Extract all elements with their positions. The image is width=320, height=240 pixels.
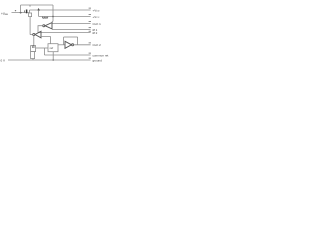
wire node B drop xyxy=(51,5,54,24)
op-amp U1 xyxy=(45,23,52,29)
terminal tick ground xyxy=(89,57,91,59)
capacitor C1 plate short xyxy=(24,10,26,12)
wire riser to top rail xyxy=(20,5,22,13)
wire to U2 output xyxy=(30,34,33,36)
svg-text:ground: ground xyxy=(93,59,103,63)
buffer U4 xyxy=(65,41,72,48)
buffer U4 bubble xyxy=(72,44,74,46)
wire rail B xyxy=(39,16,91,18)
wire ground rail xyxy=(8,59,91,61)
svg-text:+VBB: +VBB xyxy=(1,12,8,16)
terminal tick rail E xyxy=(89,30,91,32)
node stub on top rail xyxy=(29,5,31,7)
node plus polarity mark xyxy=(15,10,16,11)
wire rail D xyxy=(52,29,91,31)
terminal tick rail F xyxy=(89,52,91,54)
resistor R1 body xyxy=(29,13,32,17)
wire U4 feedback left xyxy=(63,37,65,45)
junction node A xyxy=(38,9,40,11)
wire rail E xyxy=(38,32,91,34)
resistor R2 body xyxy=(31,52,35,59)
wire tap to oscillator xyxy=(36,47,48,49)
inductor L1 xyxy=(42,17,47,19)
wire U2 lower input xyxy=(41,37,51,44)
wire step up xyxy=(29,10,31,13)
wire U1 output xyxy=(38,26,43,33)
junction node B xyxy=(52,16,54,18)
terminal tick rail B xyxy=(89,14,91,16)
svg-text:0 V: 0 V xyxy=(1,58,6,62)
wire U4 feedback right xyxy=(77,37,79,45)
terminal tick rail C xyxy=(89,21,91,23)
op-amp U2 bubble xyxy=(33,33,35,35)
crystal X1 body xyxy=(31,46,36,52)
wire rail C xyxy=(52,23,90,25)
wire U4 feedback top xyxy=(64,36,78,38)
terminal tick rail A xyxy=(89,7,91,9)
svg-text:common ret: common ret xyxy=(93,54,109,58)
wire U2 output down xyxy=(33,36,35,46)
op-amp U1 bubble xyxy=(43,25,45,27)
wire node A drop xyxy=(38,10,40,17)
capacitor C1 plate long xyxy=(26,10,28,14)
svg-text:ref: ref xyxy=(50,46,54,50)
svg-text:G: G xyxy=(32,45,35,49)
junction U3 ground xyxy=(52,59,54,61)
op-amp U2 xyxy=(35,31,41,38)
wire U4 output rail G xyxy=(74,44,91,46)
svg-text:CLK 1: CLK 1 xyxy=(93,22,102,26)
terminal tick rail G xyxy=(89,42,91,44)
junction input node xyxy=(20,12,22,14)
svg-text:+VDD: +VDD xyxy=(93,9,100,13)
wire top rail xyxy=(21,4,53,6)
wire U3 to ground xyxy=(52,52,54,60)
wire tap drop xyxy=(43,48,45,55)
wire U3 output xyxy=(58,44,65,46)
node A tick xyxy=(38,8,40,10)
svg-text:Ø 2: Ø 2 xyxy=(93,31,98,35)
svg-text:+VCC: +VCC xyxy=(93,15,100,19)
oscillator box U3 xyxy=(48,44,58,52)
terminal tick rail D xyxy=(89,27,91,29)
wire R2 to ground rail xyxy=(32,59,34,60)
wire input horizontal xyxy=(12,12,30,14)
wire rail A xyxy=(30,9,91,11)
wire rail F xyxy=(44,54,90,56)
svg-text:CLK 2: CLK 2 xyxy=(93,43,102,47)
wire R1 down xyxy=(29,17,31,35)
